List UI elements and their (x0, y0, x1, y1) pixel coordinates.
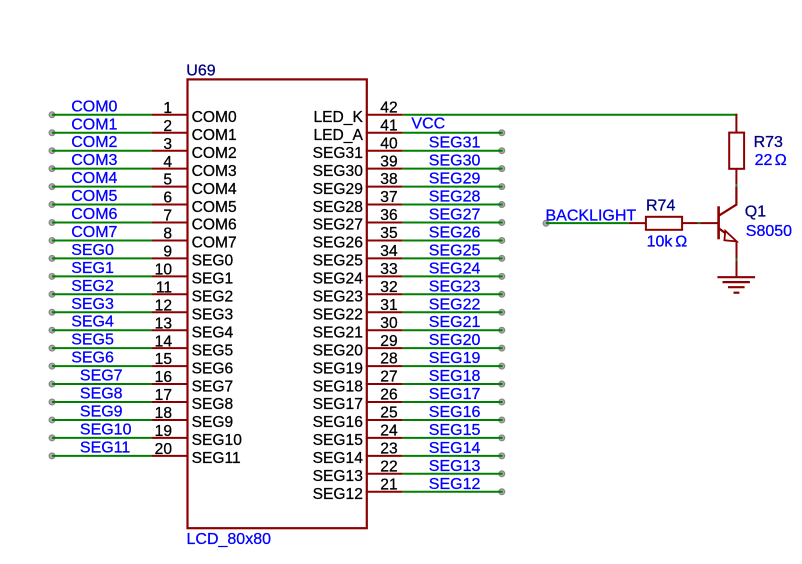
svg-text:SEG3: SEG3 (71, 296, 114, 313)
wire net SEG22 (403, 311, 503, 313)
svg-text:COM7: COM7 (71, 224, 117, 241)
svg-text:8: 8 (163, 226, 172, 243)
svg-text:SEG6: SEG6 (71, 350, 114, 367)
svg-text:SEG26: SEG26 (313, 235, 363, 252)
svg-text:SEG20: SEG20 (429, 332, 481, 349)
junction dot net SEG23 (499, 291, 505, 297)
pin 39 stub SEG30 (366, 168, 403, 170)
svg-text:COM0: COM0 (71, 98, 117, 115)
resistor R73 body (729, 133, 744, 169)
wire net SEG29 (403, 186, 503, 188)
junction dot net SEG30 (499, 166, 505, 172)
pin 8 stub COM7 (152, 239, 189, 241)
junction dot net SEG25 (499, 256, 505, 262)
svg-text:1: 1 (163, 100, 172, 117)
R73 bottom lead (735, 169, 737, 185)
svg-text:U69: U69 (186, 63, 215, 80)
pin 29 stub SEG20 (366, 347, 403, 349)
svg-text:40: 40 (380, 135, 398, 152)
svg-text:SEG14: SEG14 (313, 450, 364, 467)
svg-text:SEG29: SEG29 (313, 181, 363, 198)
wire net SEG18 (403, 383, 503, 385)
junction dot net COM5 (49, 202, 55, 208)
svg-text:SEG7: SEG7 (192, 378, 234, 395)
wire net SEG23 (403, 293, 503, 295)
wire net SEG25 (403, 257, 503, 259)
svg-text:SEG24: SEG24 (313, 271, 364, 288)
R74 right lead (682, 222, 698, 224)
junction dot net SEG29 (499, 184, 505, 190)
wire net SEG9 (52, 419, 152, 421)
svg-text:Q1: Q1 (745, 204, 766, 221)
svg-text:SEG29: SEG29 (429, 171, 481, 188)
pin 24 stub SEG15 (366, 437, 403, 439)
junction dot net COM3 (49, 166, 55, 172)
R74 left lead (629, 222, 647, 224)
svg-text:22: 22 (755, 152, 773, 169)
wire net SEG30 (403, 168, 503, 170)
svg-text:SEG15: SEG15 (313, 432, 364, 449)
svg-text:37: 37 (380, 189, 397, 206)
pin 1 stub COM0 (152, 114, 189, 116)
pin 15 stub SEG6 (152, 365, 189, 367)
wire sliver emitter to ground (736, 259, 738, 261)
pin 20 stub SEG11 (152, 455, 189, 457)
svg-text:R73: R73 (754, 134, 783, 151)
junction dot net SEG15 (499, 435, 505, 441)
wire net SEG5 (52, 347, 152, 349)
wire net SEG7 (52, 383, 152, 385)
svg-text:COM6: COM6 (192, 217, 237, 234)
wire net COM6 (52, 222, 152, 224)
pin 16 stub SEG7 (152, 383, 189, 385)
pin 6 stub COM5 (152, 204, 189, 206)
junction dot net SEG12 (499, 489, 505, 495)
svg-text:SEG4: SEG4 (192, 324, 234, 341)
transistor Q1 base bar (717, 206, 720, 239)
wire net SEG11 (52, 455, 152, 457)
junction dot net SEG14 (499, 453, 505, 459)
wire net SEG4 (52, 329, 152, 331)
svg-text:25: 25 (380, 405, 398, 422)
wire net COM2 (52, 150, 152, 152)
svg-text:21: 21 (380, 476, 397, 493)
junction dot net SEG8 (49, 399, 55, 405)
svg-text:SEG0: SEG0 (192, 253, 234, 270)
svg-text:SEG23: SEG23 (429, 278, 481, 295)
svg-text:SEG28: SEG28 (313, 199, 363, 216)
svg-text:SEG21: SEG21 (313, 324, 363, 341)
svg-text:SEG0: SEG0 (71, 242, 114, 259)
svg-text:10: 10 (155, 261, 173, 278)
svg-text:SEG1: SEG1 (71, 260, 114, 277)
svg-text:9: 9 (163, 244, 172, 261)
IC U69 LCD module body (188, 79, 367, 528)
svg-text:17: 17 (155, 387, 172, 404)
pin 19 stub SEG10 (152, 437, 189, 439)
svg-text:LED_A: LED_A (313, 127, 363, 144)
pin 10 stub SEG1 (152, 275, 189, 277)
pin 41 stub LED_A (366, 132, 403, 134)
svg-text:SEG12: SEG12 (313, 486, 363, 503)
junction dot net SEG4 (49, 327, 55, 333)
junction dot net SEG6 (49, 363, 55, 369)
junction dot net SEG17 (499, 399, 505, 405)
svg-text:39: 39 (380, 153, 397, 170)
junction dot net SEG16 (499, 417, 505, 423)
junction dot net SEG26 (499, 238, 505, 244)
svg-text:COM5: COM5 (192, 199, 237, 216)
wire net SEG31 (403, 150, 503, 152)
svg-text:2: 2 (163, 118, 172, 135)
wire net SEG28 (403, 204, 503, 206)
wire net LED_K to R73 (403, 114, 738, 116)
svg-text:SEG28: SEG28 (429, 189, 481, 206)
svg-text:SEG2: SEG2 (71, 278, 114, 295)
pin 30 stub SEG21 (366, 329, 403, 331)
resistor R74 body (646, 217, 682, 230)
junction dot net COM6 (49, 220, 55, 226)
junction dot net BACKLIGHT (543, 220, 549, 226)
svg-text:BACKLIGHT: BACKLIGHT (546, 207, 637, 224)
pin 13 stub SEG4 (152, 329, 189, 331)
pin 22 stub SEG13 (366, 473, 403, 475)
svg-text:COM6: COM6 (71, 206, 117, 223)
svg-text:5: 5 (163, 172, 172, 189)
wire net COM0 (52, 114, 152, 116)
svg-text:COM5: COM5 (71, 188, 117, 205)
wire net SEG14 (403, 455, 503, 457)
wire net SEG0 (52, 257, 152, 259)
junction dot net SEG0 (49, 256, 55, 262)
wire net COM5 (52, 204, 152, 206)
svg-text:24: 24 (380, 423, 398, 440)
pin 25 stub SEG16 (366, 419, 403, 421)
svg-text:28: 28 (380, 351, 397, 368)
junction dot net VCC (499, 130, 505, 136)
wire sliver R74 to Q1 base (698, 222, 701, 224)
wire net SEG12 (403, 491, 503, 493)
svg-text:34: 34 (380, 243, 398, 260)
wire net SEG27 (403, 222, 503, 224)
junction dot net SEG27 (499, 220, 505, 226)
svg-text:SEG23: SEG23 (313, 289, 363, 306)
pin 42 stub LED_K (366, 114, 403, 116)
svg-text:14: 14 (155, 333, 173, 350)
svg-text:SEG5: SEG5 (71, 332, 114, 349)
pin 38 stub SEG29 (366, 186, 403, 188)
svg-text:SEG30: SEG30 (313, 163, 364, 180)
svg-text:19: 19 (155, 423, 172, 440)
svg-text:SEG12: SEG12 (429, 476, 481, 493)
pin 32 stub SEG23 (366, 293, 403, 295)
svg-text:SEG8: SEG8 (80, 386, 123, 403)
svg-text:COM0: COM0 (192, 109, 237, 126)
pin 40 stub SEG31 (366, 150, 403, 152)
svg-text:SEG3: SEG3 (192, 306, 234, 323)
svg-text:SEG10: SEG10 (192, 432, 243, 449)
pin 18 stub SEG9 (152, 419, 189, 421)
junction dot net SEG22 (499, 309, 505, 315)
pin 28 stub SEG19 (366, 365, 403, 367)
junction dot net SEG5 (49, 345, 55, 351)
svg-text:SEG8: SEG8 (192, 396, 234, 413)
pin 34 stub SEG25 (366, 257, 403, 259)
junction dot net COM7 (49, 238, 55, 244)
wire net SEG8 (52, 401, 152, 403)
svg-text:26: 26 (380, 387, 397, 404)
junction dot net COM0 (49, 112, 55, 118)
svg-text:SEG17: SEG17 (313, 396, 363, 413)
svg-text:COM3: COM3 (192, 163, 237, 180)
svg-text:VCC: VCC (411, 115, 445, 132)
wire LED_K corner down to R73 (735, 114, 737, 133)
svg-text:SEG4: SEG4 (71, 314, 114, 331)
junction dot net SEG2 (49, 291, 55, 297)
wire sliver R73 to Q1 collector (735, 184, 737, 187)
pin 7 stub COM6 (152, 222, 189, 224)
svg-text:COM7: COM7 (192, 235, 237, 252)
svg-text:SEG6: SEG6 (192, 360, 234, 377)
svg-text:7: 7 (163, 208, 172, 225)
svg-text:SEG7: SEG7 (80, 368, 123, 385)
junction dot net SEG3 (49, 309, 55, 315)
pin 12 stub SEG3 (152, 311, 189, 313)
junction dot net SEG28 (499, 202, 505, 208)
junction dot net SEG11 (49, 453, 55, 459)
junction dot net SEG7 (49, 381, 55, 387)
svg-text:SEG15: SEG15 (429, 422, 481, 439)
wire net SEG20 (403, 347, 503, 349)
svg-text:SEG21: SEG21 (429, 314, 481, 331)
svg-text:33: 33 (380, 261, 397, 278)
pin 4 stub COM3 (152, 168, 189, 170)
wire net SEG16 (403, 419, 503, 421)
svg-text:SEG19: SEG19 (429, 350, 481, 367)
pin 37 stub SEG28 (366, 204, 403, 206)
svg-text:COM3: COM3 (71, 152, 117, 169)
wire net COM7 (52, 239, 152, 241)
svg-text:SEG5: SEG5 (192, 342, 234, 359)
pin 3 stub COM2 (152, 150, 189, 152)
pin 23 stub SEG14 (366, 455, 403, 457)
svg-text:SEG25: SEG25 (313, 253, 364, 270)
junction dot net SEG1 (49, 273, 55, 279)
svg-text:S8050: S8050 (746, 223, 792, 240)
svg-text:42: 42 (380, 99, 397, 116)
svg-text:36: 36 (380, 207, 397, 224)
pin 9 stub SEG0 (152, 257, 189, 259)
svg-text:SEG16: SEG16 (313, 414, 363, 431)
wire net SEG1 (52, 275, 152, 277)
pin 36 stub SEG27 (366, 222, 403, 224)
pin 11 stub SEG2 (152, 293, 189, 295)
ground lead (736, 261, 738, 277)
wire net SEG13 (403, 473, 503, 475)
transistor Q1 emitter arrow (724, 231, 736, 242)
svg-text:SEG16: SEG16 (429, 404, 481, 421)
wire net COM3 (52, 168, 152, 170)
svg-text:LED_K: LED_K (313, 109, 363, 126)
svg-text:10k: 10k (647, 234, 674, 251)
svg-text:35: 35 (380, 225, 398, 242)
svg-text:COM4: COM4 (192, 181, 237, 198)
junction dot net COM2 (49, 148, 55, 154)
pin 5 stub COM4 (152, 186, 189, 188)
svg-text:SEG17: SEG17 (429, 386, 481, 403)
svg-text:32: 32 (380, 279, 397, 296)
transistor Q1 emitter line (719, 229, 727, 235)
pin 21 stub SEG12 (366, 491, 403, 493)
wire net SEG6 (52, 365, 152, 367)
svg-text:SEG10: SEG10 (80, 421, 132, 438)
svg-text:SEG14: SEG14 (429, 440, 481, 457)
ground symbol (717, 277, 755, 293)
svg-text:SEG27: SEG27 (429, 207, 481, 224)
junction dot net SEG13 (499, 471, 505, 477)
svg-text:Ω: Ω (675, 234, 687, 251)
svg-text:SEG11: SEG11 (192, 450, 241, 467)
wire net SEG26 (403, 239, 503, 241)
svg-text:SEG18: SEG18 (313, 378, 363, 395)
transistor Q1 collector pin (719, 187, 736, 216)
pin 31 stub SEG22 (366, 311, 403, 313)
pin 14 stub SEG5 (152, 347, 189, 349)
wire net SEG2 (52, 293, 152, 295)
svg-text:Ω: Ω (775, 152, 787, 169)
wire net SEG24 (403, 275, 503, 277)
junction dot net COM1 (49, 130, 55, 136)
svg-text:12: 12 (155, 297, 172, 314)
svg-text:3: 3 (163, 136, 172, 153)
junction dot net SEG24 (499, 273, 505, 279)
svg-text:SEG30: SEG30 (429, 153, 481, 170)
pin 33 stub SEG24 (366, 275, 403, 277)
svg-text:SEG27: SEG27 (313, 217, 363, 234)
junction dot net SEG10 (49, 435, 55, 441)
svg-text:SEG25: SEG25 (429, 242, 481, 259)
junction dot net SEG20 (499, 345, 505, 351)
svg-text:SEG24: SEG24 (429, 260, 481, 277)
wire net SEG21 (403, 329, 503, 331)
svg-text:SEG20: SEG20 (313, 342, 364, 359)
wire net BACKLIGHT (546, 222, 629, 224)
svg-text:COM4: COM4 (71, 170, 117, 187)
svg-text:SEG11: SEG11 (80, 439, 130, 456)
wire net VCC (403, 132, 503, 134)
svg-text:COM2: COM2 (192, 145, 237, 162)
svg-text:16: 16 (155, 369, 172, 386)
svg-text:SEG9: SEG9 (80, 403, 123, 420)
svg-text:SEG22: SEG22 (429, 296, 481, 313)
svg-text:SEG13: SEG13 (429, 458, 481, 475)
svg-text:COM1: COM1 (192, 127, 237, 144)
svg-text:R74: R74 (646, 198, 675, 215)
svg-text:SEG1: SEG1 (192, 271, 234, 288)
svg-text:38: 38 (380, 171, 397, 188)
svg-text:SEG19: SEG19 (313, 360, 363, 377)
svg-text:20: 20 (155, 441, 173, 458)
junction dot net SEG18 (499, 381, 505, 387)
svg-text:LCD_80x80: LCD_80x80 (187, 531, 272, 548)
junction dot net COM4 (49, 184, 55, 190)
svg-text:31: 31 (380, 297, 397, 314)
svg-text:23: 23 (380, 440, 397, 457)
wire net SEG3 (52, 311, 152, 313)
svg-text:COM2: COM2 (71, 134, 117, 151)
Q1 emitter pin down (736, 241, 738, 259)
junction dot net SEG9 (49, 417, 55, 423)
svg-text:30: 30 (380, 315, 398, 332)
junction dot net SEG21 (499, 327, 505, 333)
svg-text:SEG2: SEG2 (192, 289, 234, 306)
svg-text:29: 29 (380, 333, 397, 350)
junction dot net SEG19 (499, 363, 505, 369)
wire net SEG19 (403, 365, 503, 367)
pin 35 stub SEG26 (366, 239, 403, 241)
svg-text:22: 22 (380, 458, 397, 475)
svg-text:SEG13: SEG13 (313, 468, 363, 485)
pin 17 stub SEG8 (152, 401, 189, 403)
svg-text:13: 13 (155, 315, 172, 332)
svg-text:15: 15 (155, 351, 173, 368)
wire net SEG10 (52, 437, 152, 439)
svg-text:SEG9: SEG9 (192, 414, 234, 431)
svg-text:COM1: COM1 (71, 116, 117, 133)
wire net COM1 (52, 132, 152, 134)
svg-text:4: 4 (163, 154, 172, 171)
svg-text:27: 27 (380, 369, 397, 386)
svg-text:6: 6 (163, 190, 172, 207)
svg-text:SEG22: SEG22 (313, 306, 363, 323)
transistor Q1 base pin (700, 222, 717, 224)
wire net SEG17 (403, 401, 503, 403)
svg-text:SEG26: SEG26 (429, 224, 481, 241)
svg-text:SEG31: SEG31 (313, 145, 363, 162)
svg-text:SEG18: SEG18 (429, 368, 481, 385)
pin 2 stub COM1 (152, 132, 189, 134)
junction dot net SEG31 (499, 148, 505, 154)
pin 26 stub SEG17 (366, 401, 403, 403)
pin 27 stub SEG18 (366, 383, 403, 385)
svg-text:18: 18 (155, 405, 172, 422)
svg-text:41: 41 (380, 117, 397, 134)
svg-text:SEG31: SEG31 (429, 135, 481, 152)
wire net COM4 (52, 186, 152, 188)
wire net SEG15 (403, 437, 503, 439)
svg-text:11: 11 (156, 279, 172, 296)
